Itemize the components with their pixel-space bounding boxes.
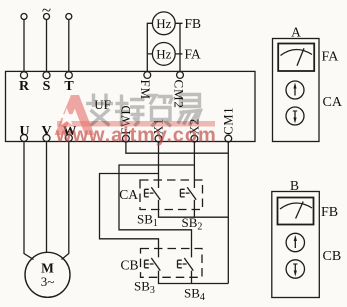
terminal S <box>43 72 51 94</box>
svg-text:A: A <box>291 25 301 40</box>
svg-text:CM1: CM1 <box>221 107 235 135</box>
wire SB3 bottom to CM1 net <box>159 271 229 284</box>
pushbutton SB2 <box>180 187 196 200</box>
svg-text:B: B <box>290 178 299 193</box>
terminal V <box>41 124 51 142</box>
terminal X1 <box>152 118 166 142</box>
terminal FWD <box>119 105 133 142</box>
up button panel A <box>286 81 304 99</box>
svg-text:CA: CA <box>119 187 138 202</box>
svg-text:~: ~ <box>42 1 51 20</box>
svg-text:FB: FB <box>321 205 338 220</box>
wire R <box>23 19 25 71</box>
watermark red A logo <box>55 95 95 135</box>
terminal CM1 <box>221 107 235 142</box>
wire SB1 bottom to CM1 net <box>159 200 229 217</box>
pushbutton SB1 <box>145 187 161 200</box>
svg-text:3~: 3~ <box>41 274 55 289</box>
svg-text:Hz: Hz <box>156 16 171 31</box>
svg-text:U: U <box>19 124 29 139</box>
svg-text:Hz: Hz <box>156 47 171 62</box>
meter FA <box>278 44 314 72</box>
watermark char 特 <box>115 95 145 127</box>
svg-text:R: R <box>19 79 30 94</box>
up button panel B <box>286 233 304 251</box>
station CA dashed box <box>140 180 203 210</box>
Hz meter FA <box>152 43 175 66</box>
pushbutton SB4 <box>178 258 194 271</box>
wire CM1 vertical <box>227 142 229 284</box>
svg-text:CB: CB <box>120 258 138 273</box>
wire X2 branch to SB4 <box>119 165 194 257</box>
watermark char 艾 <box>86 94 113 126</box>
svg-text:T: T <box>64 79 74 94</box>
down button panel A <box>286 107 304 125</box>
wire X1 branch to SB3 <box>100 174 159 258</box>
watermark white star <box>58 108 76 125</box>
wire V to motor <box>46 142 48 253</box>
wire FM to Hz meters <box>147 23 152 71</box>
panel A box <box>273 39 320 142</box>
wire SB2 bottom <box>193 200 195 217</box>
wire X2 to SB2 <box>193 142 195 188</box>
pushbutton SB3 <box>145 258 161 271</box>
inverter UF box <box>6 71 256 141</box>
terminal X2 <box>187 118 201 142</box>
terminal U <box>19 124 29 142</box>
wire SB4 bottom <box>191 271 193 284</box>
terminal CM2 <box>172 72 187 109</box>
svg-text:CA: CA <box>323 95 343 110</box>
terminal W <box>63 124 77 142</box>
panel B box <box>272 192 320 298</box>
wire FWD to CM1 net <box>126 142 228 153</box>
watermark pink stripe <box>57 121 215 127</box>
svg-text:V: V <box>41 124 51 139</box>
svg-text:www.aitmy.com: www.aitmy.com <box>55 125 217 147</box>
supply terminal T (top) <box>66 14 72 20</box>
svg-text:CB: CB <box>323 249 342 264</box>
svg-text:S: S <box>43 79 51 94</box>
terminal T <box>64 72 74 94</box>
wire T <box>68 19 70 71</box>
station CB dashed box <box>141 249 203 278</box>
wire W to motor <box>62 142 69 260</box>
Hz meter FB <box>152 12 175 35</box>
svg-text:FB: FB <box>185 16 202 31</box>
meter FB <box>278 198 314 225</box>
wire U to motor <box>24 142 34 260</box>
wire CM2 to Hz meters <box>175 23 182 71</box>
supply terminal R (top) <box>21 14 27 20</box>
svg-text:FA: FA <box>322 50 340 65</box>
supply terminal S (top) <box>44 14 50 20</box>
down button panel B <box>286 260 304 278</box>
wire X1 to SB1 <box>158 142 160 188</box>
motor M <box>25 252 70 297</box>
wire S <box>46 19 48 71</box>
svg-text:FA: FA <box>185 47 202 62</box>
terminal FM <box>138 72 153 100</box>
watermark char 易 <box>178 95 201 126</box>
watermark char 贸 <box>148 96 173 127</box>
terminal R <box>19 72 30 94</box>
